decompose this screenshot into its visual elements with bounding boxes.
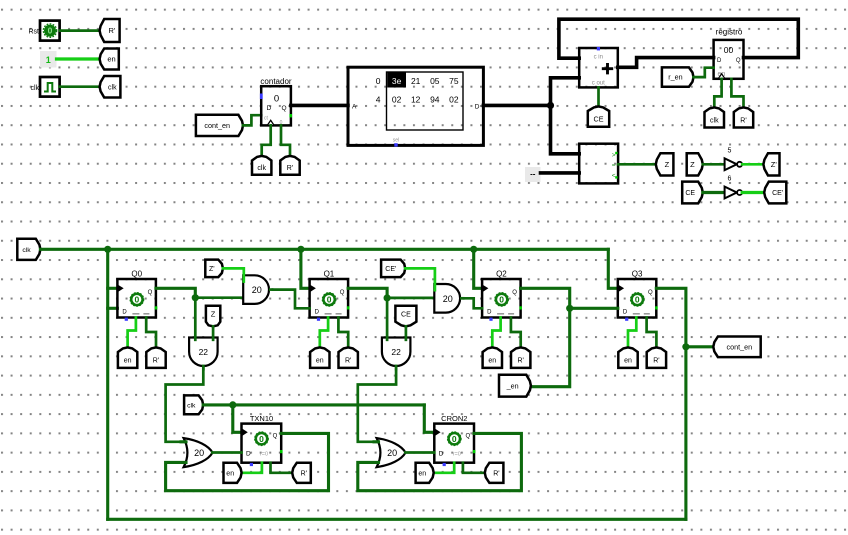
svg-text:Z': Z' bbox=[771, 160, 778, 169]
svg-text:clk: clk bbox=[257, 165, 266, 172]
svg-text:clk: clk bbox=[187, 403, 196, 410]
wire bbox=[243, 115, 261, 125]
wire bbox=[742, 191, 764, 194]
wire bbox=[60, 85, 100, 88]
svg-text:R': R' bbox=[287, 165, 293, 172]
svg-text:Q: Q bbox=[273, 434, 278, 440]
tunnel en bbox=[100, 49, 119, 70]
tunnel clk bbox=[252, 156, 271, 175]
input pin Rst bbox=[29, 21, 60, 41]
wire bbox=[271, 463, 293, 473]
tunnel Rst bbox=[339, 347, 358, 368]
svg-text:CE': CE' bbox=[385, 266, 396, 273]
wire bbox=[233, 405, 242, 432]
tunnel en bbox=[618, 347, 637, 368]
svg-text:Z': Z' bbox=[209, 266, 215, 273]
wire bbox=[273, 290, 310, 309]
wire bbox=[474, 249, 482, 288]
junction bbox=[682, 343, 689, 350]
svg-text:<: < bbox=[612, 172, 616, 179]
wire bbox=[108, 287, 118, 290]
svg-text:en: en bbox=[624, 358, 632, 365]
flip-flop Q0 bbox=[117, 269, 157, 321]
AND gate 20 bbox=[243, 275, 273, 304]
junction bbox=[229, 401, 236, 408]
wire bbox=[656, 288, 686, 519]
tunnel Rst bbox=[280, 156, 299, 175]
wire bbox=[57, 57, 101, 60]
svg-text:--: -- bbox=[530, 170, 536, 179]
svg-text:Q: Q bbox=[648, 290, 653, 296]
flip-flop Q2 bbox=[482, 269, 522, 321]
svg-text:TXN10: TXN10 bbox=[250, 414, 273, 423]
svg-text:Q: Q bbox=[736, 58, 741, 64]
svg-text:20: 20 bbox=[194, 448, 204, 458]
svg-text:D: D bbox=[315, 310, 320, 316]
svg-text:5: 5 bbox=[728, 148, 732, 155]
svg-text:Z: Z bbox=[690, 160, 695, 169]
wire bbox=[492, 318, 500, 348]
constant 1 bbox=[40, 51, 57, 68]
wire bbox=[608, 249, 618, 288]
tunnel Rst bbox=[100, 19, 120, 42]
svg-text:D: D bbox=[439, 450, 444, 457]
tunnel Rst bbox=[734, 107, 753, 127]
svg-text:0: 0 bbox=[274, 94, 279, 105]
tunnel r_en bbox=[662, 67, 694, 86]
or gate 20d bbox=[377, 438, 406, 467]
wire bbox=[146, 318, 156, 348]
svg-text:00: 00 bbox=[724, 45, 734, 55]
wire bbox=[531, 308, 570, 386]
counter contador label bbox=[260, 77, 291, 86]
gate ZZ2 bbox=[382, 338, 411, 371]
svg-text:Q3: Q3 bbox=[632, 269, 643, 278]
tunnel clk bbox=[17, 239, 40, 260]
wire bbox=[156, 288, 195, 297]
svg-text:22: 22 bbox=[391, 347, 401, 357]
svg-text:Rst: Rst bbox=[29, 29, 40, 36]
wire bbox=[405, 326, 408, 340]
svg-text:D: D bbox=[122, 310, 127, 316]
wire bbox=[262, 125, 271, 156]
wire bbox=[405, 451, 434, 454]
svg-text:cont_en: cont_en bbox=[204, 121, 230, 130]
adder bbox=[579, 47, 618, 87]
svg-text:4: 4 bbox=[376, 95, 381, 105]
tunnel CE2 bbox=[764, 182, 786, 204]
svg-text:Q: Q bbox=[465, 434, 470, 440]
wire bbox=[597, 87, 600, 107]
svg-text:02: 02 bbox=[449, 95, 459, 105]
tunnel CE bbox=[682, 182, 703, 204]
svg-text:_en: _en bbox=[506, 381, 519, 390]
svg-text:D: D bbox=[487, 310, 492, 316]
tunnel clk bbox=[705, 107, 725, 127]
junction bbox=[297, 246, 304, 253]
svg-text:CE: CE bbox=[685, 190, 695, 197]
junction bbox=[470, 246, 477, 253]
wire bbox=[742, 163, 763, 166]
svg-text:Q: Q bbox=[281, 105, 286, 112]
tunnel Z bbox=[656, 153, 674, 175]
wire bbox=[320, 318, 328, 348]
wire bbox=[703, 191, 725, 194]
tunnel Z2 bbox=[763, 153, 779, 175]
tunnel r_en2 bbox=[499, 375, 531, 397]
wire bbox=[511, 318, 521, 348]
junction bbox=[384, 294, 391, 301]
blue pin bbox=[443, 463, 446, 466]
junction bbox=[192, 294, 199, 301]
tunnel Z bbox=[687, 153, 703, 175]
svg-text:contador: contador bbox=[260, 77, 291, 86]
wire bbox=[181, 440, 186, 443]
svg-text:CE: CE bbox=[401, 311, 411, 318]
svg-text:D: D bbox=[623, 310, 628, 316]
svg-text:en: en bbox=[226, 470, 234, 477]
wire bbox=[628, 318, 636, 348]
wire bbox=[647, 318, 657, 348]
svg-text:20: 20 bbox=[443, 294, 453, 304]
tunnel en bbox=[483, 347, 502, 368]
svg-text:en: en bbox=[124, 358, 132, 365]
svg-text:CE': CE' bbox=[772, 190, 783, 197]
svg-text:r_en: r_en bbox=[668, 73, 682, 82]
svg-text:c in: c in bbox=[594, 54, 603, 60]
svg-text:R': R' bbox=[108, 26, 115, 35]
wire bbox=[618, 163, 656, 166]
svg-text:en: en bbox=[418, 470, 426, 477]
svg-text:>: > bbox=[612, 152, 616, 159]
junction bbox=[104, 246, 111, 253]
tunnel clk2 bbox=[184, 395, 203, 414]
tunnel Rst2 bbox=[292, 463, 311, 483]
svg-text:A: A bbox=[352, 103, 357, 110]
tunnel Z bbox=[206, 306, 220, 327]
svg-text:ct: ct bbox=[264, 116, 269, 122]
svg-text:02: 02 bbox=[392, 95, 402, 105]
wire bbox=[731, 79, 743, 108]
tunnel en bbox=[310, 347, 329, 368]
svg-text:Z: Z bbox=[211, 309, 216, 318]
register registro bbox=[714, 40, 744, 79]
svg-text:Q2: Q2 bbox=[496, 269, 507, 278]
svg-text:r=0: r=0 bbox=[453, 451, 461, 457]
svg-text:=: = bbox=[612, 162, 616, 169]
svg-text:en: en bbox=[488, 358, 496, 365]
tunnel en2 bbox=[224, 463, 242, 483]
input pin clk bbox=[30, 77, 59, 97]
wire bbox=[223, 268, 244, 281]
svg-text:R': R' bbox=[740, 117, 746, 124]
svg-text:R': R' bbox=[493, 470, 499, 477]
svg-text:Z: Z bbox=[665, 160, 670, 169]
svg-text:en: en bbox=[107, 55, 115, 64]
NOT gate 5 bbox=[725, 148, 743, 171]
wire bbox=[281, 125, 290, 156]
NOT gate 6 bbox=[725, 176, 743, 199]
wire bbox=[108, 307, 118, 310]
register registro label bbox=[716, 28, 743, 37]
svg-text:20: 20 bbox=[252, 285, 262, 295]
wire bbox=[387, 297, 434, 300]
flip-flop CR bbox=[434, 414, 475, 463]
wire bbox=[60, 29, 100, 32]
wire bbox=[128, 318, 136, 348]
junction bbox=[566, 305, 573, 312]
tunnel Rst bbox=[511, 347, 530, 368]
wire bbox=[203, 403, 424, 406]
wire bbox=[386, 298, 389, 340]
svg-text:R': R' bbox=[301, 470, 307, 477]
wire bbox=[521, 288, 570, 308]
svg-text:12: 12 bbox=[411, 95, 421, 105]
or gate 20c bbox=[184, 438, 213, 467]
wire bbox=[694, 68, 714, 77]
svg-text:0: 0 bbox=[259, 434, 264, 444]
tunnel cont_en2 bbox=[713, 337, 760, 358]
tunnel Rst bbox=[647, 347, 666, 368]
wire bbox=[212, 326, 215, 340]
wire bbox=[108, 518, 686, 521]
tunnel clk bbox=[100, 76, 121, 98]
svg-text:3e: 3e bbox=[392, 76, 402, 86]
svg-text:D: D bbox=[267, 105, 272, 112]
svg-text:0: 0 bbox=[48, 26, 53, 36]
tunnel Rst3 bbox=[485, 463, 504, 483]
wire bbox=[703, 163, 725, 166]
svg-text:0: 0 bbox=[376, 76, 381, 86]
wire bbox=[106, 249, 109, 519]
tunnel CE bbox=[588, 106, 609, 126]
svg-text:D: D bbox=[475, 103, 480, 110]
wire bbox=[291, 104, 348, 108]
svg-text:05: 05 bbox=[430, 76, 440, 86]
wire bbox=[374, 440, 379, 443]
flip-flop Q1 bbox=[310, 269, 350, 321]
svg-text:CE: CE bbox=[594, 115, 604, 124]
svg-text:21: 21 bbox=[411, 76, 421, 86]
wire bbox=[242, 463, 262, 473]
wire bbox=[338, 318, 348, 348]
svg-text:94: 94 bbox=[430, 95, 440, 105]
wire bbox=[686, 345, 713, 348]
tunnel CE2 bbox=[381, 260, 405, 278]
svg-text:r=0: r=0 bbox=[260, 451, 268, 457]
wire bbox=[301, 249, 310, 288]
counter contador bbox=[260, 86, 292, 126]
tunnel en bbox=[118, 347, 137, 368]
wire bbox=[166, 366, 204, 442]
comparator bbox=[579, 144, 618, 184]
AND gate 20b bbox=[434, 284, 464, 313]
wire bbox=[194, 298, 197, 340]
wire bbox=[551, 105, 580, 153]
svg-text:D: D bbox=[717, 58, 722, 64]
wire bbox=[551, 78, 580, 106]
svg-text:75: 75 bbox=[449, 76, 459, 86]
wire bbox=[559, 19, 798, 58]
wire bbox=[541, 171, 580, 175]
svg-text:cont_en: cont_en bbox=[727, 342, 753, 351]
blue pin bbox=[250, 463, 253, 466]
svg-text:0: 0 bbox=[135, 295, 140, 305]
svg-text:sel: sel bbox=[393, 138, 399, 144]
tunnel cont_en bbox=[196, 115, 243, 136]
tunnel CE bbox=[395, 306, 416, 327]
wire bbox=[212, 451, 241, 454]
svg-text:1: 1 bbox=[46, 55, 51, 65]
svg-text:CRON2: CRON2 bbox=[441, 414, 467, 423]
svg-text:Q: Q bbox=[148, 290, 153, 296]
junction bbox=[547, 102, 554, 109]
constant unknown bbox=[525, 167, 541, 182]
wire bbox=[195, 296, 243, 299]
svg-text:D: D bbox=[246, 450, 251, 457]
svg-text:clk: clk bbox=[108, 84, 117, 91]
svg-text:c out: c out bbox=[592, 80, 605, 86]
wire bbox=[483, 104, 550, 108]
wire bbox=[358, 433, 522, 490]
svg-text:0: 0 bbox=[327, 295, 332, 305]
tunnel Rst bbox=[146, 347, 165, 368]
tunnel Z2 bbox=[205, 260, 223, 278]
wire bbox=[464, 298, 482, 308]
wire bbox=[714, 79, 721, 108]
wire bbox=[618, 58, 714, 68]
wire bbox=[405, 268, 435, 290]
wire bbox=[358, 366, 396, 442]
svg-text:en: en bbox=[316, 358, 324, 365]
svg-text:20: 20 bbox=[387, 448, 397, 458]
gate ZZ1 bbox=[189, 338, 218, 371]
svg-text:Q0: Q0 bbox=[131, 269, 142, 278]
flip-flop Q3 bbox=[618, 269, 658, 321]
ROM bbox=[348, 67, 483, 146]
svg-text:R': R' bbox=[345, 358, 351, 365]
wire bbox=[434, 463, 455, 473]
svg-text:0: 0 bbox=[452, 434, 457, 444]
svg-text:Q: Q bbox=[340, 290, 345, 296]
svg-text:Q: Q bbox=[512, 290, 517, 296]
svg-text:0: 0 bbox=[499, 295, 504, 305]
wire bbox=[348, 288, 387, 298]
wire bbox=[570, 307, 618, 310]
wire bbox=[166, 433, 329, 490]
wire bbox=[40, 248, 608, 251]
svg-text:clk: clk bbox=[22, 247, 31, 254]
svg-text:clk: clk bbox=[710, 117, 719, 124]
svg-text:22: 22 bbox=[199, 347, 209, 357]
svg-text:R': R' bbox=[153, 358, 159, 365]
wire bbox=[424, 405, 434, 432]
svg-text:R': R' bbox=[517, 358, 523, 365]
tunnel en3 bbox=[416, 463, 434, 483]
svg-text:R': R' bbox=[653, 358, 659, 365]
svg-text:registro: registro bbox=[716, 28, 743, 37]
flip-flop TX bbox=[242, 414, 283, 463]
svg-text:clk: clk bbox=[30, 85, 39, 92]
svg-text:0: 0 bbox=[635, 295, 640, 305]
svg-text:6: 6 bbox=[728, 176, 732, 183]
wire bbox=[463, 463, 485, 473]
svg-text:Q1: Q1 bbox=[324, 269, 335, 278]
